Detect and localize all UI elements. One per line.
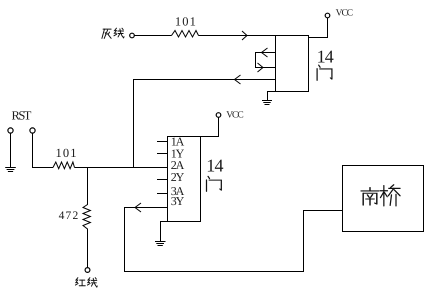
svg-text:472: 472 xyxy=(59,210,80,222)
svg-text:101: 101 xyxy=(56,146,78,160)
ground U1 xyxy=(268,92,276,101)
wire xyxy=(10,133,12,167)
arrow left on loop top xyxy=(262,48,268,57)
node 红线 label xyxy=(75,278,97,287)
ground RST xyxy=(5,167,16,169)
pin 1A xyxy=(157,141,168,143)
label 南桥 xyxy=(361,185,400,206)
terminal RST right xyxy=(30,128,35,133)
VCC terminal U2 xyxy=(216,113,221,118)
pin 3Y xyxy=(157,207,168,209)
svg-text:14: 14 xyxy=(206,156,223,176)
wire xyxy=(33,133,54,167)
wire xyxy=(135,35,172,37)
pin 2A xyxy=(157,167,168,169)
gate U2 body (14 gate) xyxy=(168,137,201,222)
wire to 2A xyxy=(75,167,158,169)
glyph 门 U1 xyxy=(317,65,332,80)
resistor 101 (gray line) xyxy=(172,31,199,38)
terminal RST left xyxy=(8,128,13,133)
svg-text:101: 101 xyxy=(175,14,197,28)
op-amp U1 body (14 gate) xyxy=(276,36,309,92)
svg-text:14: 14 xyxy=(317,47,334,67)
arrow left on 3Y wire xyxy=(135,203,141,212)
wire xyxy=(199,35,276,37)
resistor 472 xyxy=(83,168,90,268)
terminal 红线 xyxy=(85,268,90,273)
ground U2 xyxy=(161,222,168,242)
feedback loop wire U1 xyxy=(256,53,276,68)
wire 3Y to 南桥 xyxy=(125,208,343,272)
VCC terminal U1 xyxy=(325,13,330,18)
resistor 101 (RST) xyxy=(53,162,75,169)
svg-text:RST: RST xyxy=(12,109,32,123)
terminal 灰线 xyxy=(130,33,135,38)
arrow right into U1 xyxy=(242,31,247,40)
pin 2Y xyxy=(157,179,168,181)
wire U1 output to node xyxy=(134,80,276,168)
svg-text:2Y: 2Y xyxy=(171,170,185,184)
wire VCC to U1 xyxy=(309,18,328,38)
pin 1Y xyxy=(157,153,168,155)
svg-text:VCC: VCC xyxy=(336,9,353,19)
svg-text:VCC: VCC xyxy=(226,111,243,121)
wire VCC to U2 xyxy=(201,117,219,136)
arrow right on loop bottom xyxy=(258,63,264,72)
pin 3A xyxy=(157,193,168,195)
node 灰线 label xyxy=(102,28,124,38)
south bridge box 南桥 xyxy=(343,166,424,232)
svg-text:3Y: 3Y xyxy=(171,194,185,208)
arrow left on U1 output xyxy=(235,75,241,84)
glyph 门 U2 xyxy=(207,176,222,191)
